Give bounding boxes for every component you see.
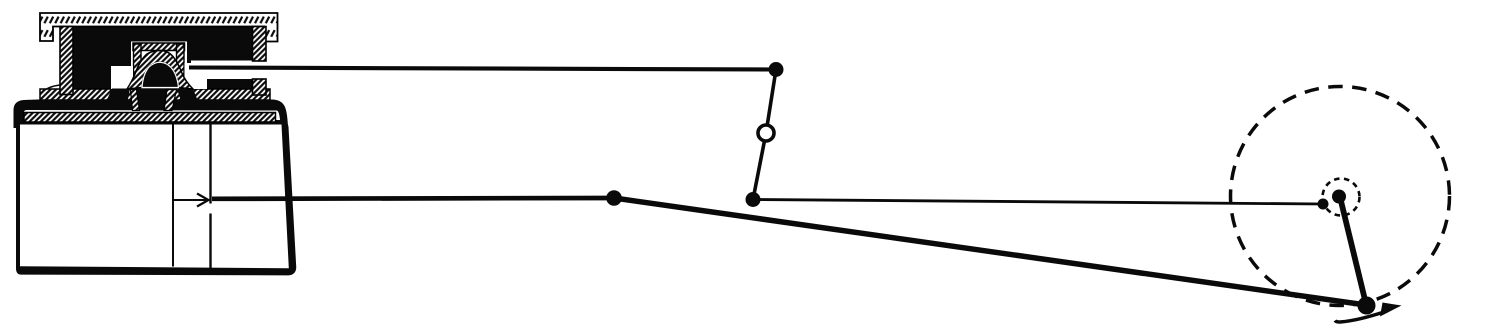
piston rod line 2 — [209, 125, 211, 269]
gap in piston rod line — [209, 204, 213, 214]
crosshead pin — [606, 190, 622, 206]
piston line 1 — [172, 125, 174, 267]
slide valve top box interior (white) — [131, 42, 187, 90]
crank shaft center — [1332, 190, 1346, 204]
central exhaust port (black trapezoid) — [136, 89, 167, 111]
right chest wall lower (hatched) — [253, 79, 267, 95]
piston rod — [212, 196, 614, 202]
slide valve top box (hatched bar and walls) — [133, 43, 185, 81]
valve pocket right (white) — [185, 63, 208, 89]
valve rod — [189, 68, 776, 70]
valve pocket left (white) — [111, 66, 133, 89]
rocker pivot (open circle) — [758, 125, 774, 141]
eccentric rod — [753, 200, 1323, 205]
rocker bottom pin — [746, 192, 761, 207]
steam chest interior (black) — [70, 24, 255, 94]
valve seat (hatched band with ports) — [40, 89, 270, 100]
left wall foot flare — [41, 85, 60, 93]
left chest wall (hatched) — [60, 27, 73, 95]
rocker top pin — [769, 62, 784, 77]
slide valve dome (hatched bell arch) — [127, 51, 193, 90]
port wall column right (hatched) — [164, 90, 177, 111]
right chest wall upper (hatched) — [253, 27, 267, 62]
valve rod slot (white channel through chest wall) — [191, 61, 280, 80]
rotation arrow — [1335, 303, 1402, 323]
right steam port (black opening) — [177, 89, 198, 101]
connecting rod — [614, 198, 1366, 305]
rocker link — [753, 70, 776, 200]
crank pin — [1358, 297, 1376, 315]
crank circle (large dashed) — [1231, 87, 1450, 306]
cylinder head band (hatched) — [24, 113, 276, 123]
left steam port (black opening) — [106, 89, 130, 103]
eccentric circle (small dashed) — [1323, 179, 1360, 216]
valve exhaust cavity (black) — [142, 62, 179, 87]
piston position arrow — [174, 194, 209, 207]
steam passage layer (black) — [14, 100, 289, 129]
port wall column left (hatched) — [131, 90, 140, 111]
crank arm — [1340, 197, 1366, 304]
eccentric pin — [1318, 199, 1329, 210]
cylinder body (black casing) — [16, 120, 296, 275]
steam chest cover plate (hatched, with end lips) — [40, 13, 278, 42]
